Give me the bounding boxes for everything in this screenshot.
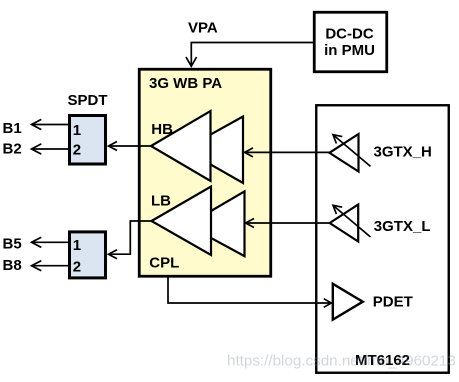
amplifier A1 HB driver stage (small triangle) (184, 117, 243, 184)
svg-text:2: 2 (73, 141, 81, 158)
svg-text:3GTX_L: 3GTX_L (374, 218, 431, 235)
svg-text:PDET: PDET (373, 293, 413, 310)
svg-text:CPL: CPL (149, 255, 179, 272)
arrowhead B5 (32, 237, 42, 247)
gain arrow through G2 (333, 206, 370, 238)
buffer G1 3GTX_H output (triangle with gain arrow) (329, 134, 358, 172)
svg-text:B5: B5 (3, 236, 22, 253)
svg-text:DC-DC: DC-DC (325, 26, 373, 43)
arrowhead into LB amp (246, 219, 255, 228)
switch S1 SPDT (high band) (70, 116, 106, 165)
arrowhead B1 (32, 119, 42, 129)
svg-text:2: 2 (73, 258, 81, 275)
wire 3GTX_H to HB input (246, 151, 330, 153)
switch S2 SPDT (low band) (70, 232, 106, 278)
amplifier A3 LB driver stage (small triangle) (187, 191, 245, 256)
svg-text:B2: B2 (3, 141, 22, 158)
arrowhead into PDET (324, 299, 332, 308)
wire VPA supply from DC-DC to PA (191, 43, 314, 65)
svg-text:3G WB PA: 3G WB PA (149, 75, 222, 92)
block U2 3G WB PA (yellow PA module) (139, 69, 271, 276)
arrowhead of G1 gain arrow (333, 135, 342, 144)
arrowhead B8 (32, 261, 42, 271)
wire B1 output (33, 124, 69, 126)
svg-text:https://blog.csdn.net/mo_49602: https://blog.csdn.net/mo_4960213 (227, 352, 456, 369)
gain arrow through G1 (333, 135, 370, 167)
svg-text:LB: LB (151, 193, 171, 210)
wire LB output to S2 (109, 221, 152, 254)
svg-text:1: 1 (73, 237, 81, 254)
buffer G2 3GTX_L output (triangle with gain arrow) (330, 205, 359, 242)
block U1 MT6162 transceiver (316, 105, 449, 373)
svg-text:3GTX_H: 3GTX_H (374, 143, 432, 160)
svg-text:SPDT: SPDT (68, 92, 108, 109)
wire B5 output (33, 241, 69, 243)
arrowhead of G2 gain arrow (333, 205, 342, 214)
amplifier A2 HB power stage (big triangle) (151, 111, 211, 181)
wire CPL coupler to PDET (168, 278, 331, 304)
amplifier A4 LB power stage (big triangle) (152, 187, 212, 256)
detector D1 PDET input (triangle) (333, 284, 363, 320)
wire HB output to S1 (109, 145, 151, 147)
arrowhead into S2 (109, 250, 118, 259)
arrowhead B2 (32, 144, 42, 154)
svg-text:VPA: VPA (188, 20, 218, 37)
arrowhead down into PA top (186, 57, 197, 66)
wire 3GTX_L to LB input (247, 222, 330, 224)
svg-text:B1: B1 (3, 120, 22, 137)
svg-text:1: 1 (73, 122, 81, 139)
arrowhead into HB amp (245, 148, 254, 157)
arrowhead into S1 (109, 142, 118, 151)
wire B2 output (33, 148, 69, 150)
block U3 DC-DC in PMU (314, 12, 387, 72)
svg-text:HB: HB (151, 121, 173, 138)
svg-text:B8: B8 (3, 257, 22, 274)
svg-text:in PMU: in PMU (324, 42, 375, 59)
wire B8 output (33, 265, 69, 267)
